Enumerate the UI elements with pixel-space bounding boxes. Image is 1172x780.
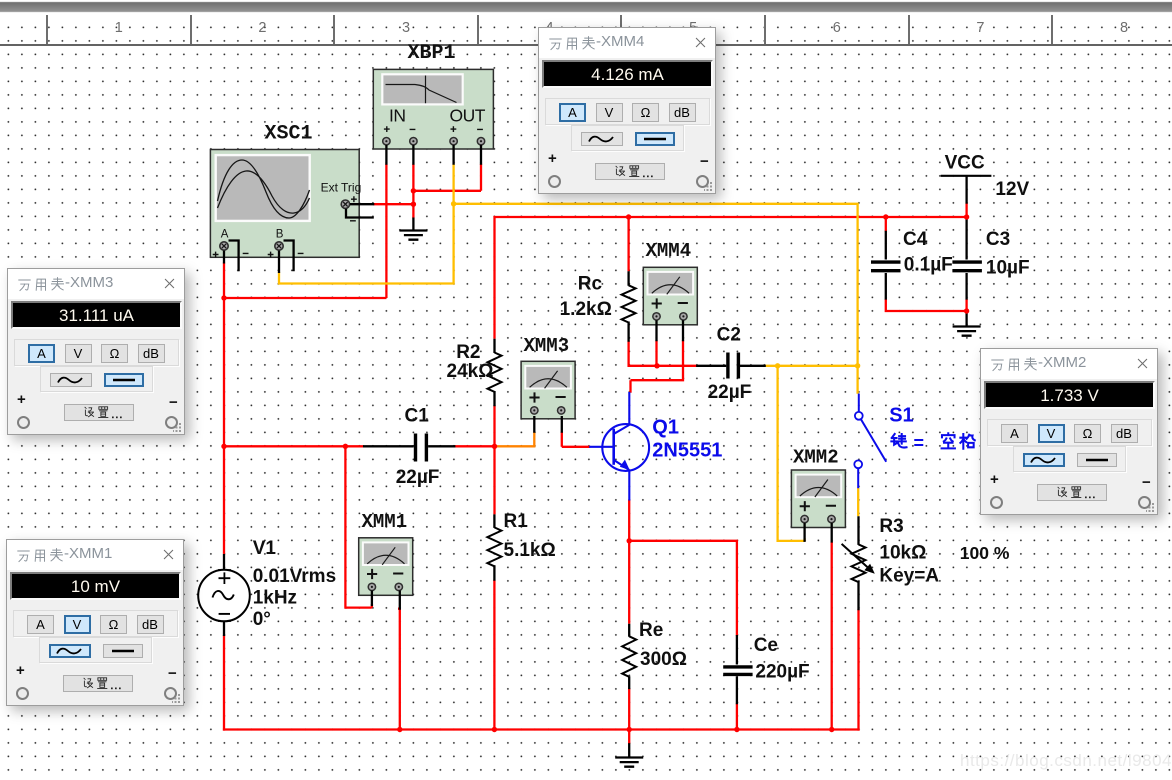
svg-text:10µF: 10µF bbox=[986, 257, 1030, 278]
wire: R2 bottom / node / R1 top (red) bbox=[493, 405, 495, 514]
oscilloscope XSC1 body bbox=[210, 150, 361, 258]
XMM4 pin stubs bbox=[657, 320, 684, 341]
svg-text:A: A bbox=[221, 229, 229, 241]
ground symbol near C3 bbox=[953, 327, 981, 336]
multimeter dialog XMM1 bbox=[6, 539, 184, 706]
wire: emitter node to Ce (red) bbox=[629, 541, 737, 636]
Rc pin stubs bbox=[627, 271, 629, 341]
svg-text:R3: R3 bbox=[879, 516, 903, 537]
XBP1 OUT+ terminal bbox=[450, 138, 457, 145]
resistor Re 300 zigzag bbox=[622, 636, 636, 677]
capacitor Ce 220uF plates bbox=[723, 667, 752, 675]
wire: branch to XMM1+ (red) bbox=[344, 446, 372, 607]
VCC stem upper bbox=[965, 176, 967, 204]
svg-text:Key=A: Key=A bbox=[879, 566, 939, 587]
XSC1 pin B terminal bbox=[275, 242, 283, 250]
svg-text:10kΩ: 10kΩ bbox=[879, 543, 926, 564]
wire: C4 top stub (red) bbox=[885, 217, 887, 232]
XMM1 pin stubs bbox=[372, 591, 400, 610]
C4 leads bbox=[885, 231, 887, 300]
potentiometer R3 10k zigzag bbox=[852, 544, 866, 582]
svg-text:22µF: 22µF bbox=[708, 382, 752, 403]
XSC1 A- bracket stub bbox=[229, 241, 239, 272]
ruler ticks bbox=[46, 15, 48, 44]
svg-text:B: B bbox=[276, 229, 284, 241]
XSC1 Ext Trig - bracket stub bbox=[346, 209, 374, 218]
svg-text:1.2kΩ: 1.2kΩ bbox=[560, 299, 612, 320]
wire: input column V1+/XSC1-A (red vertical x224) bbox=[223, 263, 225, 554]
wire: XMM4+ drop (red) bbox=[655, 340, 657, 366]
switch S1 bbox=[854, 394, 886, 489]
wire: C4/C3 bottom to ground (red) bbox=[886, 299, 967, 311]
XSC1 B pin stub bbox=[278, 251, 280, 273]
ruler line bbox=[0, 44, 1172, 46]
XMM2 pin stubs bbox=[805, 523, 832, 543]
wire: input to XBP1 IN+ (red) bbox=[224, 164, 386, 298]
AC source V1 bbox=[198, 570, 250, 622]
svg-text:22µF: 22µF bbox=[396, 467, 440, 488]
svg-text:Q1: Q1 bbox=[652, 417, 679, 439]
capacitor C1 22uF plates bbox=[416, 434, 427, 462]
R3 pin stubs bbox=[857, 516, 859, 610]
V1 top terminal bar bbox=[218, 569, 231, 571]
wire: emitter down (red) bbox=[628, 500, 630, 624]
svg-text:XMM1: XMM1 bbox=[362, 511, 408, 533]
wire: XMM3- to Q1 base (red) bbox=[562, 432, 590, 447]
wire: output to XSC1 B (yellow) bbox=[279, 204, 454, 284]
svg-text:VCC: VCC bbox=[945, 152, 985, 173]
wire: Ext Trig + to ground node (red) bbox=[373, 203, 413, 205]
wire: R3 bottom to rail (red) bbox=[857, 609, 859, 730]
svg-text:Ext Trig: Ext Trig bbox=[321, 180, 362, 194]
wire: Rc bottom to C2/XMM4+ node (red) bbox=[629, 341, 697, 366]
XSC1 Ext Trig terminal bbox=[341, 200, 349, 208]
multimeter icon XMM3 bbox=[521, 361, 575, 419]
svg-text:220µF: 220µF bbox=[755, 662, 809, 683]
svg-text:0.1µF: 0.1µF bbox=[904, 255, 953, 276]
XSC1 pin A terminal bbox=[220, 242, 228, 250]
XSC1 Ext Trig + stub bbox=[350, 203, 374, 205]
wire: R1 bottom to rail (red) bbox=[493, 580, 495, 730]
svg-text:5.1kΩ: 5.1kΩ bbox=[504, 540, 556, 561]
XBP1 pin stubs bbox=[386, 145, 481, 165]
multimeter icon XMM4 bbox=[643, 267, 697, 325]
svg-text:XMM3: XMM3 bbox=[524, 335, 570, 357]
svg-text:C1: C1 bbox=[405, 406, 430, 427]
wire: XMM1- down to rail (red) bbox=[398, 609, 400, 730]
ground symbol near XBP1 bbox=[399, 231, 427, 240]
ground symbol bottom rail bbox=[615, 758, 643, 767]
wire: V1- to ground rail (red) bbox=[223, 635, 225, 731]
wire: ground rail (red) bbox=[223, 728, 860, 730]
multimeter icon XMM2 bbox=[791, 470, 845, 528]
bode plotter XBP1 body bbox=[373, 69, 493, 149]
svg-text:1kHz: 1kHz bbox=[253, 588, 297, 609]
VCC power symbol bbox=[941, 175, 992, 177]
capacitor C4 0.1uF plates bbox=[871, 262, 901, 271]
resistor R1 5.1k zigzag bbox=[487, 527, 501, 566]
capacitor C2 22uF plates bbox=[728, 353, 739, 379]
resistor Rc 1.2k zigzag bbox=[622, 285, 636, 322]
resistor R2 24k zigzag bbox=[488, 353, 502, 392]
XBP1 IN+ terminal bbox=[383, 138, 390, 145]
svg-text:=: = bbox=[914, 433, 925, 453]
svg-text:100 %: 100 % bbox=[960, 543, 1010, 563]
XMM3 pin stubs bbox=[534, 416, 562, 433]
svg-text:0.01Vrms: 0.01Vrms bbox=[253, 566, 336, 587]
svg-text:XMM2: XMM2 bbox=[793, 447, 839, 469]
V1 top pin stub bbox=[223, 554, 225, 570]
V1 bottom terminal bar bbox=[218, 620, 231, 622]
C1 leads bbox=[363, 445, 455, 447]
multimeter icon XMM1 bbox=[359, 538, 413, 596]
svg-text:XBP1: XBP1 bbox=[408, 42, 456, 65]
svg-text:V1: V1 bbox=[253, 538, 277, 559]
ground stem (bottom rail) bbox=[628, 743, 630, 757]
junction dots (red nets) bbox=[221, 188, 969, 732]
svg-text:R1: R1 bbox=[504, 511, 529, 532]
C3 leads bbox=[965, 219, 967, 300]
wire: VCC rail y217 (red) bbox=[495, 217, 967, 339]
wire: XBP1 IN-/OUT- row (red) bbox=[413, 164, 481, 219]
R2 pin stubs bbox=[493, 339, 495, 406]
svg-text:2N5551: 2N5551 bbox=[652, 439, 722, 461]
svg-text:C2: C2 bbox=[717, 325, 741, 346]
wire: XMM4- to collector (red) bbox=[631, 340, 684, 392]
Re pin stubs bbox=[628, 624, 630, 689]
wire: output net top run to right column (yellow) bbox=[454, 204, 858, 394]
transistor Q1 2N5551 bbox=[589, 392, 649, 501]
svg-text:12V: 12V bbox=[995, 179, 1029, 200]
R1 pin stubs bbox=[493, 514, 495, 580]
wire: node to XMM3+ (orange) bbox=[495, 432, 535, 447]
svg-text:Rc: Rc bbox=[578, 273, 603, 294]
svg-text:Re: Re bbox=[639, 620, 663, 641]
svg-text:OUT: OUT bbox=[450, 106, 486, 126]
C2 leads bbox=[696, 365, 766, 367]
potentiometer R3 wiper arrow bbox=[842, 544, 875, 574]
multimeter dialog XMM3 bbox=[7, 268, 185, 435]
XBP1 IN- terminal bbox=[410, 138, 417, 145]
wire: XBP1 OUT+ down (yellow) bbox=[452, 164, 454, 204]
multimeter dialog XMM4 bbox=[538, 27, 716, 194]
junction dots (yellow net) bbox=[451, 201, 860, 368]
wire: XMM2- down to rail (red) bbox=[831, 542, 833, 730]
wire: output branch to XMM2+ (yellow) bbox=[778, 366, 805, 541]
wire: input row to C1 (red) bbox=[223, 445, 364, 447]
svg-text:XSC1: XSC1 bbox=[265, 123, 313, 146]
wire: VCC stem lower (red) bbox=[965, 203, 967, 217]
watermark bbox=[960, 751, 1172, 771]
svg-text:300Ω: 300Ω bbox=[640, 649, 687, 670]
capacitor C3 10uF plates bbox=[952, 262, 982, 271]
wire: S1 bottom to R3 top (yellow) bbox=[857, 488, 859, 517]
svg-text:XMM4: XMM4 bbox=[646, 240, 692, 262]
multimeter dialog XMM2 bbox=[980, 348, 1158, 515]
wire: Ce bottom to rail (red) bbox=[736, 703, 738, 730]
wire: rail stub to ground symbol (red) bbox=[628, 730, 630, 745]
ground stem (XBP1 area) bbox=[412, 218, 414, 231]
wire: C1 right to node (red) bbox=[454, 445, 494, 447]
wire: Rc top (red) bbox=[627, 217, 629, 271]
ground stem (C3/C4 area) bbox=[965, 311, 967, 326]
ruler numbers bbox=[104, 20, 134, 36]
label key = space (CJK) bbox=[891, 433, 974, 449]
svg-text:24kΩ: 24kΩ bbox=[447, 361, 494, 382]
XSC1 B- bracket stub bbox=[284, 241, 294, 272]
svg-text:C4: C4 bbox=[903, 229, 928, 250]
svg-text:R2: R2 bbox=[456, 342, 480, 363]
V1 bottom pin stub bbox=[223, 621, 225, 636]
svg-text:0°: 0° bbox=[253, 609, 271, 630]
svg-text:S1: S1 bbox=[889, 405, 913, 427]
wire: C2 right to output column (yellow) bbox=[765, 365, 858, 367]
svg-text:Ce: Ce bbox=[754, 635, 778, 656]
svg-text:C3: C3 bbox=[986, 229, 1010, 250]
Ce leads bbox=[736, 635, 738, 704]
XBP1 OUT- terminal bbox=[477, 138, 484, 145]
XSC1 A pin stub bbox=[223, 251, 225, 264]
svg-text:IN: IN bbox=[389, 106, 406, 126]
wire: Re bottom to rail (red) bbox=[628, 688, 630, 731]
